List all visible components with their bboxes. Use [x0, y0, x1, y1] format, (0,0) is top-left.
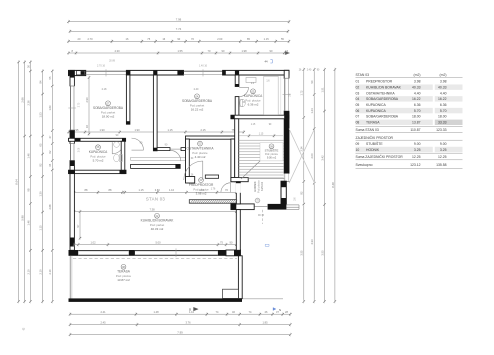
- svg-text:2.34: 2.34: [300, 146, 304, 152]
- svg-text:PREDPROSTOR: PREDPROSTOR: [366, 80, 393, 84]
- svg-text:135.58: 135.58: [436, 163, 446, 167]
- svg-text:1.30: 1.30: [39, 191, 43, 197]
- svg-text:1.63: 1.63: [48, 105, 52, 111]
- svg-text:1.46: 1.46: [26, 220, 30, 226]
- svg-text:8.48: 8.48: [331, 182, 335, 188]
- svg-text:1.15: 1.15: [167, 128, 173, 132]
- svg-text:20 89: 20 89: [109, 61, 115, 63]
- svg-text:Sveukupno: Sveukupno: [356, 163, 373, 167]
- svg-text:2.06: 2.06: [79, 147, 81, 152]
- svg-text:2.68: 2.68: [48, 204, 52, 210]
- svg-text:SOBA/GARDEROBA: SOBA/GARDEROBA: [366, 97, 399, 101]
- svg-text:16.22: 16.22: [412, 97, 421, 101]
- svg-text:KUPAONICA: KUPAONICA: [366, 109, 386, 113]
- svg-text:7.38: 7.38: [149, 207, 155, 211]
- svg-text:9.00: 9.00: [414, 142, 421, 146]
- svg-text:KUPAONICA: KUPAONICA: [366, 103, 386, 107]
- svg-text:3.98: 3.98: [440, 80, 447, 84]
- svg-text:04: 04: [356, 97, 360, 101]
- svg-text:05: 05: [356, 103, 360, 107]
- svg-text:9.00 m2: 9.00 m2: [267, 156, 277, 160]
- svg-text:3.55: 3.55: [320, 250, 324, 256]
- svg-text:08: 08: [356, 121, 360, 125]
- svg-text:5.98: 5.98: [21, 215, 25, 221]
- svg-text:5.70: 5.70: [440, 109, 447, 113]
- svg-text:13.87: 13.87: [412, 121, 421, 125]
- svg-text:Suma ZAJEDNIČKI PROSTOR: Suma ZAJEDNIČKI PROSTOR: [356, 154, 404, 159]
- svg-text:OSTAVA/TEHNIKA: OSTAVA/TEHNIKA: [366, 91, 395, 95]
- svg-text:1.15: 1.15: [39, 225, 43, 231]
- svg-text:2.40: 2.40: [307, 70, 312, 72]
- svg-text:5.00: 5.00: [155, 241, 161, 245]
- svg-text:13.87 m2: 13.87 m2: [117, 278, 130, 282]
- svg-text:123.33: 123.33: [436, 128, 446, 132]
- svg-text:TERASA: TERASA: [366, 121, 380, 125]
- svg-text:KUPAONICA: KUPAONICA: [244, 94, 263, 98]
- svg-text:Suma STAN 03: Suma STAN 03: [356, 128, 379, 132]
- svg-text:1.98: 1.98: [241, 49, 247, 53]
- svg-text:SOBA/GARDEROBA: SOBA/GARDEROBA: [366, 115, 399, 119]
- svg-text:4.40 m2: 4.40 m2: [195, 155, 206, 159]
- svg-text:HODNIK: HODNIK: [366, 148, 380, 152]
- svg-text:HODNIK: HODNIK: [253, 181, 257, 192]
- svg-text:SOBA/GARDEROBA: SOBA/GARDEROBA: [93, 106, 124, 110]
- svg-text:3.25: 3.25: [414, 148, 421, 152]
- svg-text:9.00: 9.00: [440, 142, 447, 146]
- svg-text:33.33: 33.33: [438, 121, 447, 125]
- svg-text:2.10: 2.10: [26, 269, 30, 275]
- svg-text:1.85: 1.85: [262, 321, 268, 325]
- svg-text:3.98 m2: 3.98 m2: [196, 191, 207, 195]
- svg-text:S: S: [189, 307, 191, 311]
- svg-text:4.40: 4.40: [414, 91, 421, 95]
- svg-text:2.18: 2.18: [102, 88, 107, 91]
- svg-text:6.36 m2: 6.36 m2: [248, 103, 259, 107]
- svg-text:7.74: 7.74: [176, 27, 182, 31]
- svg-text:2.40: 2.40: [194, 88, 199, 91]
- svg-text:06: 06: [356, 109, 360, 113]
- svg-text:1.48: 1.48: [153, 310, 159, 314]
- svg-text:STUBIŠTE: STUBIŠTE: [265, 147, 279, 152]
- svg-text:18.00: 18.00: [412, 115, 421, 119]
- svg-text:1.53: 1.53: [39, 112, 43, 118]
- svg-text:STAN 03: STAN 03: [146, 196, 166, 201]
- svg-text:KUPAONICA: KUPAONICA: [89, 150, 108, 154]
- svg-text:2.90: 2.90: [85, 97, 89, 103]
- svg-text:1.15: 1.15: [251, 124, 256, 126]
- svg-text:16.22: 16.22: [438, 97, 447, 101]
- svg-text:2.10: 2.10: [39, 269, 43, 275]
- svg-text:(m2): (m2): [440, 73, 447, 77]
- svg-text:3.98: 3.98: [414, 80, 421, 84]
- svg-text:3.25: 3.25: [440, 148, 447, 152]
- svg-text:90 15: 90 15: [258, 214, 265, 217]
- svg-text:5.70 m2: 5.70 m2: [93, 158, 104, 162]
- svg-text:2.00: 2.00: [310, 153, 314, 159]
- svg-text:3.42: 3.42: [320, 155, 324, 161]
- svg-text:1.15: 1.15: [259, 134, 264, 136]
- svg-text:02: 02: [356, 85, 360, 89]
- svg-text:1.02: 1.02: [90, 241, 96, 245]
- svg-text:7.99: 7.99: [177, 331, 183, 335]
- svg-text:3.55: 3.55: [300, 250, 304, 256]
- svg-text:40.33: 40.33: [438, 85, 447, 89]
- svg-text:7.99: 7.99: [176, 18, 182, 22]
- svg-text:1.90: 1.90: [134, 128, 140, 132]
- svg-text:44: 44: [264, 60, 268, 64]
- svg-text:16.22 m2: 16.22 m2: [191, 108, 204, 112]
- svg-text:2.66: 2.66: [21, 97, 25, 103]
- svg-text:123.12: 123.12: [410, 163, 420, 167]
- svg-text:1.90: 1.90: [99, 128, 105, 132]
- svg-text:1.72: 1.72: [300, 90, 304, 96]
- svg-text:4.33: 4.33: [310, 239, 314, 245]
- svg-text:TERASA: TERASA: [117, 270, 131, 274]
- svg-text:18.00 m2: 18.00 m2: [102, 115, 115, 119]
- svg-text:4.30: 4.30: [114, 49, 120, 53]
- svg-text:3.25 m2: 3.25 m2: [261, 181, 264, 191]
- svg-text:12.25: 12.25: [438, 155, 447, 159]
- svg-text:1.40 16: 1.40 16: [199, 64, 208, 67]
- svg-text:4.40: 4.40: [440, 91, 447, 95]
- svg-text:8.64: 8.64: [15, 179, 19, 185]
- svg-text:03: 03: [356, 91, 360, 95]
- svg-text:09: 09: [356, 142, 360, 146]
- svg-text:40.33 m2: 40.33 m2: [151, 227, 164, 231]
- svg-text:2.41: 2.41: [100, 310, 106, 314]
- svg-text:2.10: 2.10: [48, 269, 52, 275]
- svg-text:S: S: [279, 308, 281, 312]
- svg-text:ZAJEDNIČKI PROSTOR: ZAJEDNIČKI PROSTOR: [356, 135, 394, 140]
- svg-text:1.46: 1.46: [26, 153, 30, 159]
- svg-text:6.36: 6.36: [414, 103, 421, 107]
- svg-text:18.00: 18.00: [438, 115, 447, 119]
- svg-text:KUH/BL/DN BORAVAK: KUH/BL/DN BORAVAK: [141, 219, 175, 223]
- svg-text:5.70: 5.70: [414, 109, 421, 113]
- svg-text:KUH/BL/DN BORAVAK: KUH/BL/DN BORAVAK: [366, 85, 402, 89]
- svg-text:1.24: 1.24: [310, 108, 314, 114]
- svg-text:2.70: 2.70: [79, 102, 81, 107]
- svg-text:10: 10: [356, 148, 360, 152]
- svg-text:6.36: 6.36: [440, 103, 447, 107]
- svg-text:PREDPROSTOR: PREDPROSTOR: [189, 183, 214, 187]
- svg-text:2.36: 2.36: [26, 100, 30, 106]
- svg-text:1.15: 1.15: [264, 37, 270, 41]
- svg-text:OSTAVA/TEHNIKA: OSTAVA/TEHNIKA: [187, 146, 215, 150]
- svg-text:1.10: 1.10: [169, 188, 175, 192]
- svg-text:1.51: 1.51: [320, 87, 324, 93]
- svg-text:1.15: 1.15: [138, 188, 144, 192]
- svg-text:2.15: 2.15: [200, 128, 206, 132]
- svg-text:2.45: 2.45: [100, 321, 106, 325]
- svg-text:1.76: 1.76: [211, 188, 216, 190]
- svg-text:STAN 03: STAN 03: [356, 73, 370, 77]
- svg-text:3.60: 3.60: [155, 188, 161, 192]
- svg-text:Pod: plocice: Pod: plocice: [265, 153, 279, 156]
- svg-text:STUBIŠTE: STUBIŠTE: [366, 141, 383, 146]
- svg-text:07: 07: [356, 115, 360, 119]
- svg-text:110.87: 110.87: [410, 128, 420, 132]
- svg-text:2.60: 2.60: [217, 37, 223, 41]
- svg-text:2.70 16: 2.70 16: [97, 64, 106, 67]
- svg-text:40.33: 40.33: [412, 85, 421, 89]
- svg-text:01: 01: [356, 80, 360, 84]
- svg-text:1.55: 1.55: [177, 49, 183, 53]
- svg-text:2.70: 2.70: [87, 37, 93, 41]
- svg-text:3.76: 3.76: [185, 321, 191, 325]
- svg-text:12.25: 12.25: [412, 155, 421, 159]
- svg-text:SOBA/GARDEROBA: SOBA/GARDEROBA: [182, 99, 213, 103]
- svg-text:(m2): (m2): [414, 73, 421, 77]
